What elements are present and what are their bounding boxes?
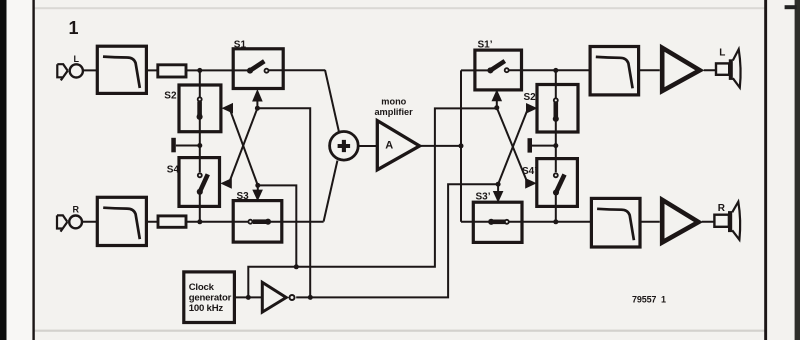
svg-text:L: L [74, 54, 80, 64]
svg-text:100 kHz: 100 kHz [189, 303, 224, 314]
svg-text:S2: S2 [164, 90, 177, 101]
svg-text:Clock: Clock [189, 282, 215, 293]
svg-text:S1’: S1’ [478, 40, 493, 51]
svg-text:amplifier: amplifier [374, 107, 413, 117]
svg-text:S1: S1 [234, 39, 247, 50]
svg-text:R: R [718, 203, 726, 214]
svg-text:1: 1 [69, 18, 79, 38]
svg-text:generator: generator [189, 292, 232, 303]
svg-text:S3: S3 [237, 191, 250, 202]
svg-text:S2’: S2’ [524, 92, 539, 103]
svg-text:S3’: S3’ [476, 192, 491, 203]
svg-text:R: R [73, 205, 80, 215]
svg-text:L: L [719, 47, 725, 58]
svg-text:79557 1: 79557 1 [632, 295, 666, 305]
svg-text:mono: mono [381, 97, 406, 107]
svg-text:S4: S4 [167, 165, 180, 176]
svg-text:A: A [385, 140, 393, 152]
svg-text:S4’: S4’ [522, 166, 537, 177]
